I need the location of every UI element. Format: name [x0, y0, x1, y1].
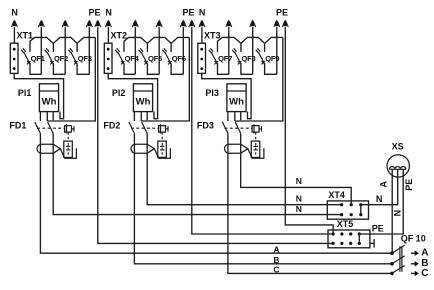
- circuit breaker QF3: [68, 19, 92, 74]
- kWh meter Pl3: [205, 84, 246, 112]
- svg-text:A: A: [378, 181, 388, 188]
- svg-text:N: N: [296, 204, 302, 214]
- kWh meter Pl2: [112, 84, 153, 112]
- circuit breaker QF4: [115, 19, 139, 74]
- wire core to release hook: [60, 148, 76, 158]
- svg-text:N: N: [376, 194, 383, 204]
- svg-text:Pl2: Pl2: [112, 88, 126, 98]
- svg-text:FD1: FD1: [9, 120, 26, 130]
- circuit breaker QF5: [139, 19, 163, 74]
- wire XT2 bottom to meter N riser: [108, 73, 157, 118]
- wire phase feed from meter to busbar: [141, 37, 189, 121]
- svg-text:XT3: XT3: [204, 31, 221, 41]
- wire N output XT4 to socket: [361, 169, 398, 204]
- RCD FD2 differential core: [131, 144, 154, 153]
- wire PE output XT5 to socket: [359, 169, 403, 234]
- circuit breaker QF8: [232, 19, 256, 74]
- svg-text:PE: PE: [372, 224, 384, 234]
- wire phase busbar arch over QF cells: [30, 37, 95, 52]
- svg-text:QF3: QF3: [78, 54, 92, 63]
- svg-text:Pl1: Pl1: [18, 88, 32, 98]
- circuit breaker QF1: [21, 19, 45, 74]
- svg-text:QF6: QF6: [172, 54, 186, 63]
- node PE arrow, section 1: [89, 7, 101, 27]
- wire N through RCD down: [146, 133, 148, 158]
- svg-text:QF2: QF2: [54, 54, 68, 63]
- RCD FD1 trip release: [64, 132, 73, 157]
- svg-text:QF9: QF9: [265, 54, 279, 63]
- svg-text:XT5: XT5: [337, 219, 354, 229]
- wire phase busbar arch over QF cells: [218, 37, 283, 52]
- svg-text:C: C: [273, 264, 279, 274]
- node PE arrow, section 2: [183, 7, 195, 27]
- wire meter terminal stubs: [228, 112, 241, 121]
- wire N section 3 to XT4: [241, 158, 352, 205]
- wire XT1 bottom to meter N riser: [14, 73, 63, 118]
- svg-text:QF7: QF7: [218, 54, 232, 63]
- circuit breaker QF9: [256, 19, 280, 74]
- circuit breaker QF7: [209, 19, 232, 74]
- svg-text:XS: XS: [392, 141, 404, 151]
- circuit breaker QF6: [162, 19, 186, 74]
- svg-text:N: N: [296, 176, 302, 186]
- svg-text:Wh: Wh: [42, 96, 57, 107]
- RCD FD2 test button: [159, 124, 168, 133]
- svg-text:B: B: [273, 255, 279, 265]
- wire N section 1 to XT4: [53, 158, 341, 215]
- node N1 (incoming N arrow, section 1): [11, 7, 18, 43]
- RCD FD3 trip release: [251, 132, 259, 157]
- svg-text:QF 10: QF 10: [401, 233, 426, 243]
- svg-text:N: N: [296, 194, 302, 204]
- kWh meter Pl1: [18, 84, 59, 112]
- RCD FD1 differential core: [37, 144, 60, 153]
- svg-text:QF4: QF4: [125, 54, 140, 63]
- wire PE section 1 to XT5: [98, 27, 333, 243]
- wire phase through RCD down: [227, 133, 229, 158]
- svg-text:Wh: Wh: [229, 96, 244, 107]
- wire PE section 2 to XT5: [192, 27, 333, 234]
- svg-text:N: N: [105, 7, 112, 17]
- svg-text:N: N: [392, 210, 402, 217]
- wire phase section 3 to row C: [228, 158, 392, 273]
- svg-text:PE: PE: [404, 179, 414, 191]
- node N2 (incoming N arrow, section 2): [105, 7, 112, 43]
- svg-text:PE: PE: [276, 7, 288, 17]
- RCD FD3 differential core: [225, 144, 248, 153]
- svg-text:FD2: FD2: [103, 120, 120, 130]
- svg-text:QF1: QF1: [31, 54, 46, 63]
- socket XS: [387, 141, 409, 177]
- wire phase busbar arch over QF cells: [124, 37, 189, 52]
- RCD FD2 contacts: [129, 122, 159, 133]
- wire XT3 bottom to meter N riser: [202, 73, 251, 118]
- wire socket pin A down to QF10: [391, 169, 393, 253]
- RCD FD2 trip release: [158, 132, 167, 157]
- svg-text:PE: PE: [89, 7, 101, 17]
- wire core to release hook: [248, 148, 264, 158]
- node phase C output: [411, 268, 429, 279]
- wire N through RCD down: [52, 133, 54, 158]
- svg-text:N: N: [11, 7, 18, 17]
- terminal block XT5: [328, 219, 370, 248]
- svg-text:XT4: XT4: [328, 190, 345, 200]
- svg-text:C: C: [421, 268, 428, 279]
- wire N through RCD down: [240, 133, 242, 158]
- wire phase feed from meter to busbar: [235, 37, 283, 121]
- svg-text:N: N: [199, 7, 206, 17]
- svg-text:XT1: XT1: [17, 31, 34, 41]
- svg-text:A: A: [273, 244, 279, 254]
- RCD FD1 contacts: [35, 122, 65, 133]
- wire PE section 3 to XT5: [285, 27, 333, 234]
- node phase A output: [411, 248, 429, 259]
- wire phase section 2 to row B: [134, 158, 392, 264]
- terminal block XT3: [198, 31, 221, 74]
- wire meter terminal stubs: [40, 112, 53, 121]
- node PE arrow, section 3: [276, 7, 288, 27]
- RCD FD3 contacts: [222, 122, 252, 133]
- circuit breaker QF2: [45, 19, 69, 74]
- svg-text:A: A: [421, 248, 428, 259]
- wire PE earthing stub: [370, 239, 374, 247]
- svg-text:Wh: Wh: [136, 96, 151, 107]
- svg-text:XT2: XT2: [111, 31, 128, 41]
- svg-text:Pl3: Pl3: [205, 88, 219, 98]
- terminal block XT4: [327, 190, 368, 219]
- wire phase section 1 to row A: [40, 158, 392, 253]
- terminal block XT2: [104, 31, 127, 74]
- svg-text:PE: PE: [183, 7, 195, 17]
- node N3 (incoming N arrow, section 3): [199, 7, 206, 43]
- svg-text:QF8: QF8: [242, 54, 256, 63]
- wire N section 2 to XT4: [147, 158, 341, 205]
- wire meter terminal stubs: [134, 112, 147, 121]
- RCD FD1 test button: [65, 124, 74, 133]
- wire core to release hook: [154, 148, 170, 158]
- wire phase feed from meter to busbar: [47, 37, 95, 121]
- wire phase through RCD down: [133, 133, 135, 158]
- svg-text:FD3: FD3: [197, 120, 214, 130]
- node phase B output: [411, 258, 429, 269]
- wire phase through RCD down: [39, 133, 41, 158]
- RCD FD3 test button: [252, 124, 261, 133]
- circuit breaker QF10: [390, 233, 426, 275]
- terminal block XT1: [10, 31, 33, 74]
- svg-text:QF5: QF5: [148, 54, 163, 63]
